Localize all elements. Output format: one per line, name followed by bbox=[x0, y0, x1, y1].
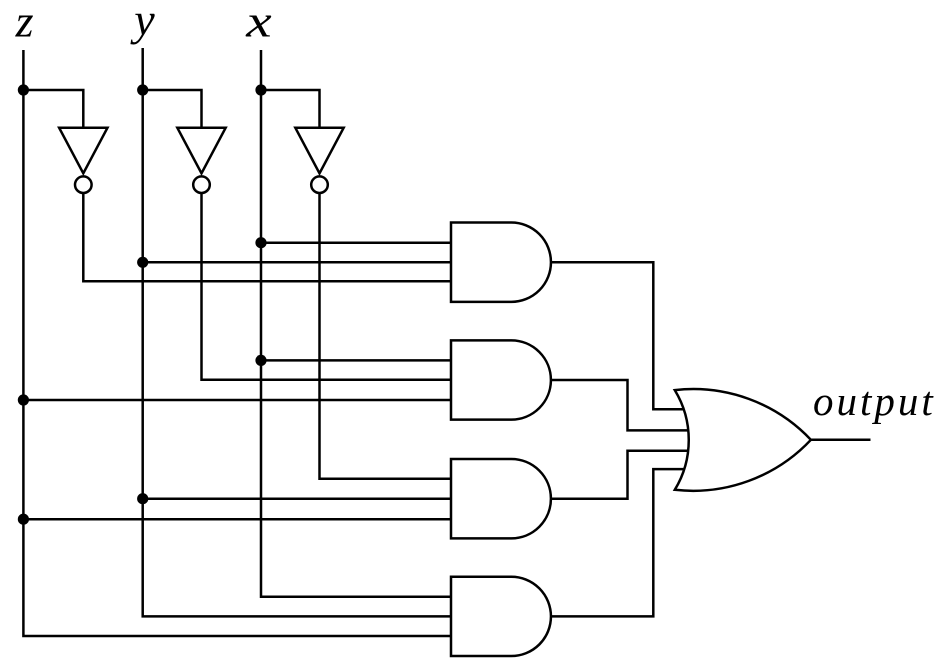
and-gate A1 (x AND y AND NOT z) bbox=[451, 223, 551, 302]
node: junction on x for AND2 pin 1 bbox=[255, 355, 266, 366]
wire: y tap to inverter U2 input bbox=[143, 90, 202, 128]
wire: A1 output to OR gate input 1 bbox=[551, 262, 684, 409]
or-gate O1 bbox=[675, 389, 811, 491]
node: junction on x for AND1 pin 1 bbox=[255, 237, 266, 248]
wire: A4 output to OR gate input 4 bbox=[551, 469, 684, 616]
inverter U3 bubble bbox=[311, 176, 328, 193]
wire: z tap to inverter U1 input bbox=[23, 90, 83, 128]
wire: A3 output to OR gate input 3 bbox=[551, 451, 688, 499]
wire: OR gate output bbox=[811, 439, 871, 442]
node: junction on x at inverter tap bbox=[255, 84, 266, 95]
wire: x to AND1 pin 1 bbox=[261, 241, 451, 244]
and-gate A3 (NOT x AND y AND z) bbox=[451, 459, 551, 538]
wire: x to AND2 pin 1 bbox=[261, 359, 451, 362]
svg-text:y: y bbox=[130, 0, 155, 45]
wire: U3 output (NOT x) down and right to AND3 pin 1 bbox=[320, 194, 452, 479]
svg-text:x: x bbox=[245, 0, 272, 47]
node: junction on z at inverter tap bbox=[18, 84, 29, 95]
wire: U1 output (NOT z) down and right to AND1 pin 3 bbox=[83, 194, 451, 282]
wire: y input rail (vertical) with bottom run to AND4 pin 2 bbox=[143, 48, 451, 616]
and-gate A4 (x AND y AND z) bbox=[451, 577, 551, 656]
wire: U2 output (NOT y) down and right to AND2 pin 2 bbox=[202, 194, 452, 380]
svg-text:z: z bbox=[15, 0, 34, 47]
wire: A2 output to OR gate input 2 bbox=[551, 380, 688, 430]
node: junction on y for AND3 pin 2 bbox=[137, 493, 148, 504]
node: junction on z for AND2 pin 3 bbox=[18, 394, 29, 405]
wire: x tap to inverter U3 input bbox=[261, 90, 320, 128]
node: junction on y for AND1 pin 2 bbox=[137, 257, 148, 268]
wire: z input rail (vertical) with bottom run to AND4 pin 3 bbox=[23, 50, 451, 636]
svg-text:output: output bbox=[813, 378, 936, 424]
node: junction on z for AND3 pin 3 bbox=[18, 514, 29, 525]
inverter U1 bubble bbox=[75, 176, 92, 193]
wire: z to AND3 pin 3 bbox=[23, 518, 451, 521]
wire: y to AND3 pin 2 bbox=[143, 497, 451, 500]
wire: x input rail (vertical) with bottom run to AND4 pin 1 bbox=[261, 50, 451, 597]
and-gate A2 (x AND NOT y AND z) bbox=[451, 340, 551, 419]
inverter U2 bubble bbox=[193, 176, 210, 193]
node: junction on y at inverter tap bbox=[137, 84, 148, 95]
inverter U1 (NOT z): triangle bbox=[59, 128, 107, 174]
inverter U2 (NOT y): triangle bbox=[177, 128, 225, 174]
wire: y to AND1 pin 2 bbox=[143, 261, 451, 264]
inverter U3 (NOT x): triangle bbox=[295, 128, 343, 174]
wire: z to AND2 pin 3 bbox=[23, 399, 451, 402]
